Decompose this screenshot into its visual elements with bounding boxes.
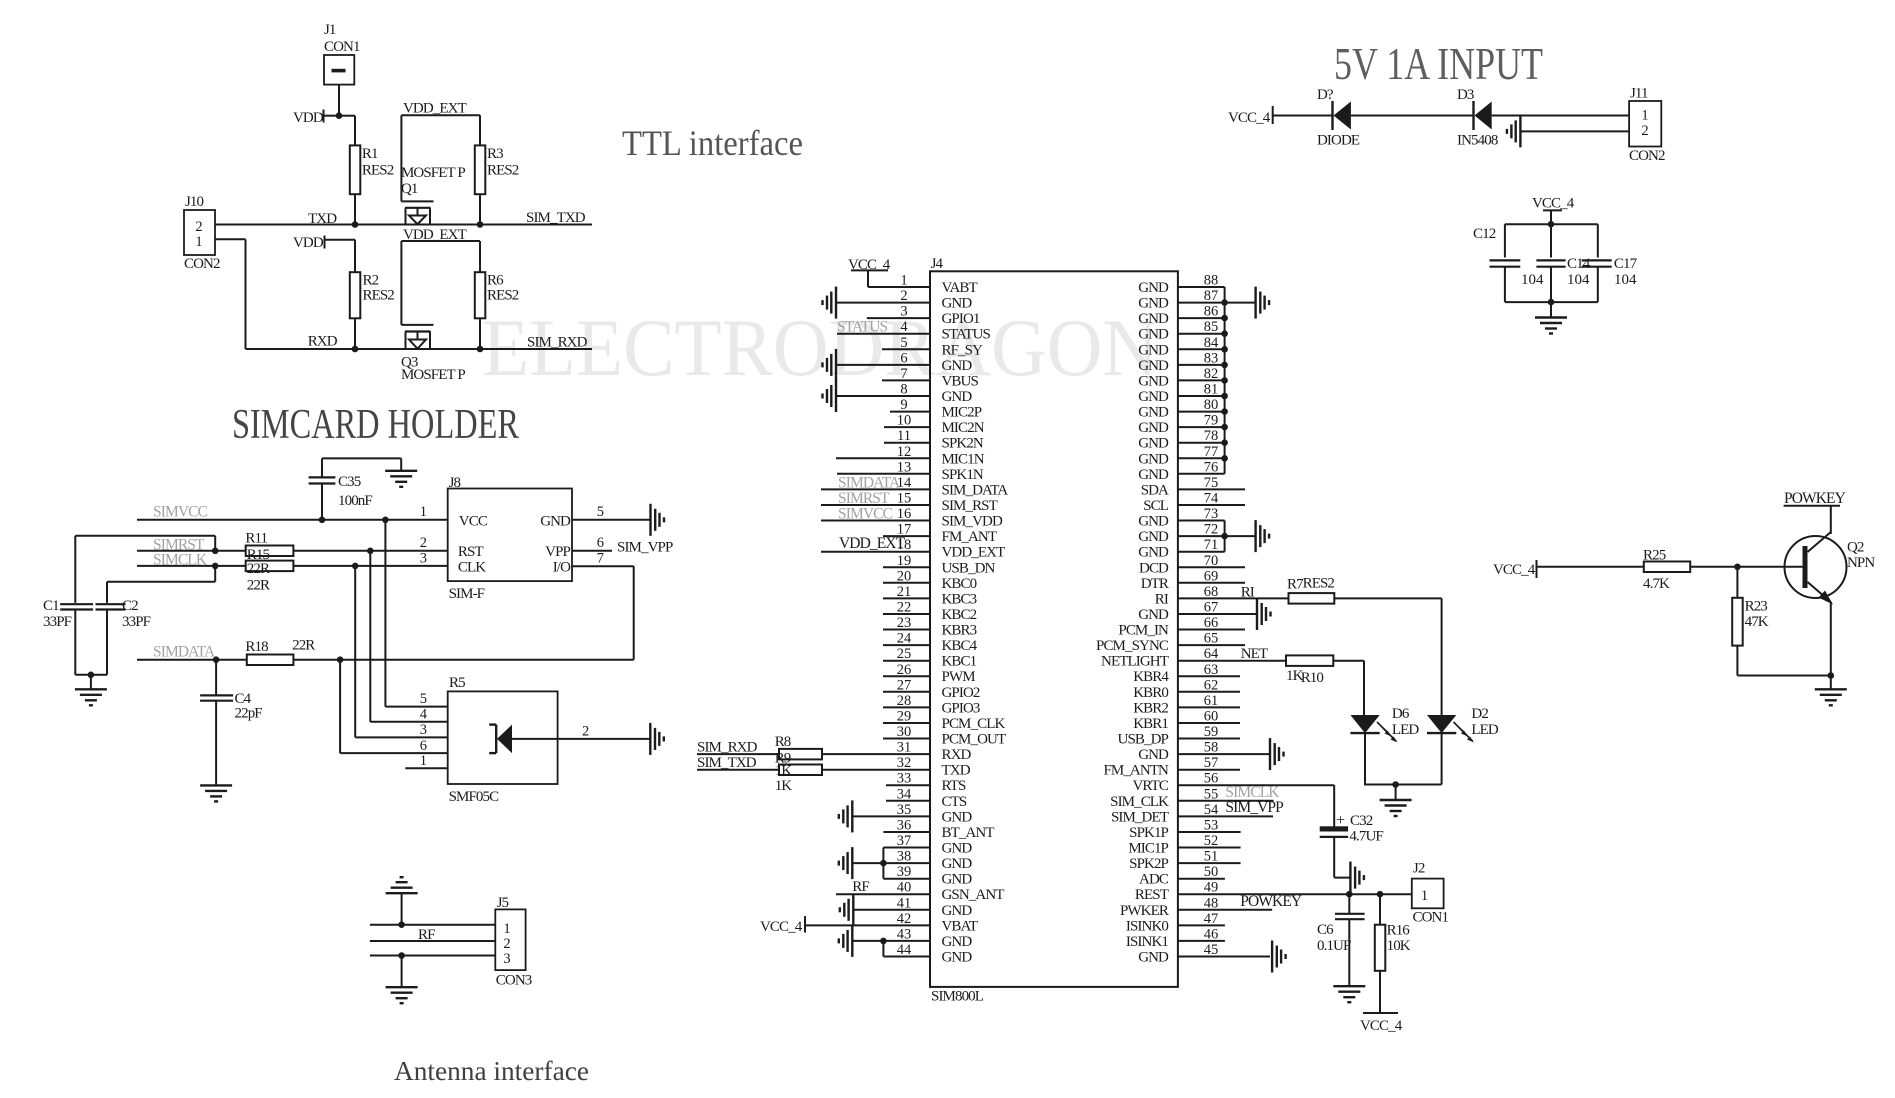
svg-text:GND: GND — [1138, 529, 1169, 545]
wire R25 to base — [1690, 566, 1803, 568]
svg-text:GND: GND — [540, 514, 571, 530]
ground (pins 37-39) — [839, 847, 853, 879]
wire pin 62 stub — [1178, 691, 1240, 693]
wire R6 to RXD line — [479, 318, 481, 349]
capacitor C32 4.7UF polarized — [1320, 812, 1384, 878]
pin 52 MIC1P — [1128, 833, 1218, 857]
wire C32 to ground — [1334, 877, 1350, 879]
wire pin 64 stub — [1178, 660, 1286, 662]
pin 19 USB_DN — [883, 553, 996, 577]
node TXD-R1 junction — [352, 221, 359, 228]
wire J8 pin5 GND — [572, 519, 651, 521]
svg-text:6: 6 — [597, 535, 604, 551]
wire pin 79 stub — [1178, 426, 1225, 428]
power VCC_4 (input) — [1228, 106, 1273, 126]
svg-text:R1: R1 — [362, 146, 378, 162]
wire R3 to TXD line — [479, 194, 481, 224]
svg-text:37: 37 — [897, 833, 912, 849]
svg-text:1: 1 — [1641, 108, 1648, 124]
wire pin 47 stub — [1178, 924, 1225, 926]
svg-text:C6: C6 — [1317, 922, 1334, 938]
wire pin 85 stub — [1178, 333, 1225, 335]
svg-text:CON2: CON2 — [184, 256, 220, 272]
svg-text:10: 10 — [897, 413, 912, 429]
svg-text:D3: D3 — [1457, 87, 1474, 103]
node pin 77 bus junction — [1221, 455, 1228, 462]
ground (J8 pin5) — [651, 504, 665, 536]
svg-text:GND: GND — [1138, 467, 1169, 483]
svg-text:23: 23 — [897, 615, 912, 631]
pin 75 SDA — [1141, 475, 1219, 499]
svg-text:R5: R5 — [449, 675, 465, 691]
svg-text:C12: C12 — [1473, 226, 1496, 242]
wire R18 to I/O loop — [293, 659, 633, 661]
pin 71 GND — [1138, 537, 1218, 561]
resistor R2 RES2 — [350, 272, 395, 318]
svg-text:DCD: DCD — [1139, 560, 1169, 576]
svg-text:STATUS: STATUS — [942, 327, 991, 343]
svg-text:R10: R10 — [1301, 670, 1324, 686]
wire R5 pin4 riser — [370, 551, 447, 722]
pin 58 GND — [1138, 740, 1218, 764]
svg-text:SIM-F: SIM-F — [449, 586, 485, 602]
pin 44 GND — [883, 942, 972, 966]
node SIMRST-R5 branch — [367, 548, 374, 555]
pin 42 VBAT — [805, 911, 978, 935]
resistor R25 4.7K — [1643, 548, 1690, 593]
svg-text:I/O: I/O — [553, 560, 571, 576]
capacitor C12 104 — [1473, 226, 1544, 288]
ground (Q2) — [1815, 689, 1847, 705]
capacitor C1 33PF — [43, 598, 93, 675]
pin 12 MIC1N — [836, 444, 985, 468]
svg-text:19: 19 — [897, 553, 912, 569]
node LED ground junction — [1392, 781, 1399, 788]
wire R5 pin1 stub — [405, 767, 447, 769]
wire C2 bracket to SIMCLK — [107, 566, 215, 603]
wire pin 66 stub — [1178, 629, 1245, 631]
ground (pin58) — [1270, 738, 1284, 770]
capacitor C35 100nF — [309, 458, 373, 519]
node pin 86 bus junction — [1221, 315, 1228, 322]
svg-text:CLK: CLK — [458, 560, 486, 576]
svg-text:22R: 22R — [247, 561, 270, 577]
resistor R23 47K — [1732, 567, 1769, 646]
pin 22 KBC2 — [883, 600, 977, 624]
wire VCC_4 to R25 — [1537, 566, 1644, 568]
node pin38 junction — [880, 860, 887, 867]
svg-text:SIM_VPP: SIM_VPP — [1225, 799, 1283, 816]
resistor R6 RES2 — [475, 272, 519, 318]
wire J1 to VDD node — [338, 85, 340, 116]
svg-text:MIC2N: MIC2N — [942, 420, 985, 436]
svg-text:2: 2 — [420, 535, 427, 551]
svg-text:5V 1A INPUT: 5V 1A INPUT — [1334, 38, 1543, 89]
wire R5 pin6 riser — [340, 660, 448, 753]
svg-text:1K: 1K — [775, 763, 793, 779]
wire C1/C2 to ground — [75, 674, 107, 676]
svg-text:40: 40 — [897, 880, 912, 896]
svg-text:SIM_DET: SIM_DET — [1111, 809, 1169, 825]
svg-text:7: 7 — [597, 551, 604, 567]
node pin72 bus junction — [1221, 533, 1228, 540]
transistor Q2 NPN — [1785, 506, 1876, 676]
capacitor C14 104 — [1536, 256, 1590, 288]
svg-text:10K: 10K — [1387, 938, 1411, 954]
ground (pin8) — [823, 380, 837, 412]
svg-text:VDD_EXT: VDD_EXT — [403, 101, 467, 117]
svg-text:FM_ANT: FM_ANT — [942, 529, 997, 545]
pin 51 SPK2P — [1129, 849, 1218, 873]
svg-text:SIM_DATA: SIM_DATA — [942, 482, 1009, 498]
wire cap bank frame — [1505, 224, 1598, 302]
wire R5 pin2 to ground — [558, 738, 651, 740]
svg-text:SDA: SDA — [1141, 482, 1169, 498]
wire SIM_RXD — [697, 753, 779, 755]
svg-text:CON1: CON1 — [324, 39, 360, 55]
svg-text:VDD: VDD — [293, 110, 324, 126]
svg-text:VCC_4: VCC_4 — [1532, 196, 1575, 212]
pin 3 GPIO1 — [867, 304, 980, 328]
wire VDD to R1 — [339, 116, 355, 146]
svg-text:PWKER: PWKER — [1120, 903, 1169, 919]
svg-text:GPIO1: GPIO1 — [942, 311, 980, 327]
svg-text:9: 9 — [900, 397, 907, 413]
svg-text:RES2: RES2 — [363, 288, 395, 304]
svg-text:33PF: 33PF — [122, 614, 151, 630]
node SIMDATA-C4 — [213, 656, 220, 663]
wire J5 pin3 — [370, 955, 495, 957]
svg-text:VPP: VPP — [545, 544, 570, 560]
svg-text:29: 29 — [897, 709, 912, 725]
transistor Q3 MOSFET P — [401, 241, 465, 383]
svg-text:4: 4 — [420, 707, 428, 723]
node TXD-R3 junction — [477, 221, 484, 228]
IC J4 SIM800L body — [930, 256, 1178, 1005]
svg-text:KBR1: KBR1 — [1133, 716, 1168, 732]
svg-text:24: 24 — [897, 631, 912, 647]
resistor R7 RES2 — [1287, 576, 1334, 604]
node pin 78 bus junction — [1221, 439, 1228, 446]
svg-text:12: 12 — [897, 444, 912, 460]
pin 16 SIM_VDD — [821, 506, 1003, 530]
svg-text:SIM_TXD: SIM_TXD — [526, 210, 586, 226]
svg-text:MIC1N: MIC1N — [942, 451, 985, 467]
svg-text:GND: GND — [1138, 327, 1169, 343]
svg-text:41: 41 — [897, 895, 912, 911]
ground (R5 pin2) — [650, 723, 664, 755]
node pin 82 bus junction — [1221, 377, 1228, 384]
pin 8 GND — [836, 382, 972, 406]
svg-text:+: + — [1336, 812, 1345, 829]
wire SIM_TXD — [697, 769, 779, 771]
pin 67 GND — [1138, 600, 1218, 624]
node pin 83 bus junction — [1221, 362, 1228, 369]
pin 79 GND — [1138, 413, 1218, 437]
wire pin 57 stub — [1178, 769, 1240, 771]
wire SIMCLK line — [137, 565, 246, 567]
svg-text:43: 43 — [897, 926, 912, 942]
resistor R18 22R — [245, 638, 315, 665]
pin 31 RXD — [822, 740, 972, 764]
node cap bank bottom — [1548, 299, 1555, 306]
resistor R3 RES2 — [475, 145, 519, 194]
svg-text:22R: 22R — [292, 638, 315, 654]
wire J5 pin1 RF — [370, 924, 495, 926]
pin 21 KBC3 — [883, 584, 977, 608]
wire pin 53 stub — [1178, 831, 1241, 833]
svg-text:ISINK0: ISINK0 — [1126, 918, 1168, 934]
svg-text:KBR4: KBR4 — [1133, 669, 1169, 685]
svg-text:PCM_SYNC: PCM_SYNC — [1096, 638, 1169, 654]
pin 63 KBR4 — [1133, 662, 1218, 685]
pin 7 VBUS — [882, 366, 978, 390]
ground (C1 C2) — [75, 689, 107, 705]
svg-text:NPN: NPN — [1847, 555, 1875, 571]
svg-text:22pF: 22pF — [235, 705, 263, 721]
wire pin 88 stub — [1178, 286, 1225, 288]
pin 66 PCM_IN — [1118, 615, 1218, 639]
svg-text:KBR2: KBR2 — [1133, 700, 1168, 716]
svg-text:J1: J1 — [324, 22, 336, 38]
svg-text:R11: R11 — [245, 531, 267, 547]
node pin 84 bus junction — [1221, 346, 1228, 353]
wire pin 70 stub — [1178, 566, 1245, 568]
wire cap bank to ground — [1550, 302, 1552, 317]
svg-text:35: 35 — [897, 802, 912, 818]
svg-text:1: 1 — [503, 921, 510, 937]
node cap bank top — [1548, 221, 1555, 228]
svg-text:1: 1 — [1421, 888, 1428, 904]
svg-text:KBR3: KBR3 — [942, 623, 977, 639]
svg-text:PWM: PWM — [942, 669, 976, 685]
pin 43 GND — [883, 926, 972, 950]
svg-text:42: 42 — [897, 911, 912, 927]
svg-text:VBAT: VBAT — [942, 918, 978, 934]
ground (J11 pin2) — [1507, 115, 1521, 147]
pin 27 GPIO2 — [883, 677, 980, 701]
svg-text:MIC2P: MIC2P — [942, 405, 982, 421]
svg-text:SCL: SCL — [1143, 498, 1169, 514]
svg-text:GND: GND — [1138, 358, 1169, 374]
pin 65 PCM_SYNC — [1096, 631, 1218, 655]
node pin 79 bus junction — [1221, 424, 1228, 431]
wire R7 to D2 — [1334, 598, 1441, 715]
ground (antenna top) — [386, 877, 418, 893]
svg-text:R2: R2 — [363, 272, 379, 288]
svg-text:RES2: RES2 — [487, 163, 519, 179]
svg-text:GND: GND — [942, 841, 973, 857]
wire pin 59 stub — [1178, 738, 1240, 740]
svg-text:4.7K: 4.7K — [1643, 576, 1670, 592]
pin 61 KBR2 — [1133, 693, 1218, 717]
wire SIMDATA line — [137, 659, 247, 661]
svg-text:D6: D6 — [1392, 706, 1410, 722]
wire pin 61 stub — [1178, 706, 1240, 708]
svg-text:GND: GND — [942, 903, 973, 919]
resistor R22 22R (SIMCLK) — [246, 561, 294, 594]
wire pin 63 stub — [1178, 675, 1240, 677]
pin 34 CTS — [886, 786, 967, 810]
svg-text:STATUS: STATUS — [837, 319, 887, 336]
svg-text:RI: RI — [1155, 591, 1169, 607]
wire pin 84 stub — [1178, 348, 1225, 350]
pin 53 SPK1P — [1129, 818, 1218, 842]
resistor R1 RES2 — [350, 145, 394, 194]
pin 64 NETLIGHT — [1101, 646, 1219, 670]
wire SIMVCC line — [137, 519, 448, 521]
pin 54 SIM_DET — [1111, 802, 1219, 826]
svg-text:KBR0: KBR0 — [1133, 685, 1168, 701]
wire C1 bracket to SIMRST — [75, 536, 215, 603]
svg-text:SPK2P: SPK2P — [1129, 856, 1168, 872]
wire pin 78 stub — [1178, 442, 1225, 444]
pin 70 DCD — [1139, 553, 1218, 577]
capacitor C6 0.1UF — [1317, 894, 1365, 986]
svg-text:22: 22 — [897, 600, 912, 616]
pin 29 PCM_CLK — [883, 709, 1005, 733]
pin 76 GND — [1138, 459, 1218, 483]
wire pins 43-44 gnd bracket — [853, 941, 883, 957]
svg-text:20: 20 — [897, 568, 912, 584]
pin 23 KBR3 — [883, 615, 977, 639]
svg-text:VRTC: VRTC — [1132, 778, 1168, 794]
node pin 80 bus junction — [1221, 408, 1228, 415]
svg-text:2: 2 — [582, 724, 589, 740]
pin 72 GND — [1138, 522, 1218, 546]
svg-text:36: 36 — [897, 818, 912, 834]
svg-text:22R: 22R — [247, 578, 270, 594]
ground (pins 43-44) — [839, 925, 853, 957]
wire pin 60 stub — [1178, 722, 1240, 724]
pin 6 GND — [836, 350, 972, 374]
pin 49 REST — [1135, 880, 1218, 904]
svg-text:5: 5 — [420, 691, 427, 707]
node pin 81 bus junction — [1221, 393, 1228, 400]
ground (pin41) — [840, 894, 854, 926]
pin 26 PWM — [883, 662, 975, 685]
wire I/O riser — [572, 566, 634, 659]
svg-text:GSN_ANT: GSN_ANT — [942, 887, 1005, 903]
wire pin 74 stub — [1178, 504, 1245, 506]
wire pin 69 stub — [1178, 582, 1245, 584]
svg-text:PCM_IN: PCM_IN — [1118, 623, 1169, 639]
pin 55 SIM_CLK — [1110, 786, 1218, 810]
connector J1 CON1 — [324, 22, 360, 85]
svg-text:C32: C32 — [1350, 813, 1373, 829]
svg-text:C14: C14 — [1567, 256, 1591, 272]
pin 13 SPK1N — [837, 459, 984, 483]
pin 30 PCM_OUT — [883, 724, 1006, 748]
diode D? DIODE — [1317, 87, 1360, 148]
svg-text:J11: J11 — [1630, 86, 1648, 102]
svg-text:KBC1: KBC1 — [942, 654, 977, 670]
wire pin56 VRTC to C32 — [1333, 785, 1335, 826]
wire pin87 to ground — [1225, 302, 1256, 304]
svg-text:VCC_4: VCC_4 — [1360, 1018, 1403, 1034]
svg-text:D2: D2 — [1471, 706, 1488, 722]
wire pins 37-39 gnd bracket — [853, 848, 883, 879]
svg-text:PCM_CLK: PCM_CLK — [942, 716, 1006, 732]
wire LED bottom rail — [1364, 784, 1442, 786]
pin 14 SIM_DATA — [821, 475, 1008, 499]
svg-text:VCC_4: VCC_4 — [1228, 110, 1271, 126]
wire RXD line — [246, 348, 593, 350]
pin 45 GND — [1138, 942, 1218, 966]
svg-text:RES2: RES2 — [1303, 576, 1335, 592]
svg-text:USB_DN: USB_DN — [942, 560, 996, 576]
svg-text:GND: GND — [1138, 296, 1169, 312]
svg-text:POWKEY: POWKEY — [1784, 490, 1846, 507]
power VCC_4 (cap bank) — [1532, 196, 1575, 225]
pin 74 SCL — [1143, 491, 1219, 515]
wire ground stub — [90, 675, 92, 690]
svg-text:Q2: Q2 — [1847, 540, 1864, 556]
ground (pin6) — [823, 349, 837, 381]
pin 81 GND — [1138, 382, 1218, 406]
svg-text:KBC0: KBC0 — [942, 576, 977, 592]
svg-text:5: 5 — [900, 335, 907, 351]
svg-text:SPK2N: SPK2N — [942, 436, 984, 452]
wire pin3 to ground — [401, 956, 403, 988]
svg-text:D?: D? — [1317, 87, 1334, 103]
pin 25 KBC1 — [883, 646, 977, 670]
svg-text:R3: R3 — [487, 146, 503, 162]
svg-text:CON3: CON3 — [496, 973, 532, 989]
node SIMRST-C1 — [212, 548, 219, 555]
wire 22R to J8 pin3 — [293, 565, 447, 567]
svg-text:GND: GND — [1138, 436, 1169, 452]
resistor R8 1K — [775, 734, 822, 759]
svg-text:VDD_EXT: VDD_EXT — [942, 545, 1006, 561]
svg-text:BT_ANT: BT_ANT — [942, 825, 995, 841]
svg-text:SIMCARD HOLDER: SIMCARD HOLDER — [232, 402, 519, 448]
pin 84 GND — [1138, 335, 1219, 359]
svg-text:1K: 1K — [775, 778, 793, 794]
resistor R15 22R (SIMRST) — [245, 531, 293, 564]
svg-text:28: 28 — [897, 693, 912, 709]
svg-text:0.1UF: 0.1UF — [1317, 938, 1351, 954]
wire R2 to RXD line — [354, 318, 356, 349]
pin 36 BT_ANT — [883, 818, 994, 842]
svg-text:11: 11 — [897, 428, 911, 444]
svg-text:104: 104 — [1567, 272, 1590, 288]
wire R10 to D6 — [1333, 661, 1364, 715]
wire LED rail to ground — [1395, 785, 1397, 801]
node C1-C2 ground — [88, 672, 95, 679]
svg-text:TXD: TXD — [942, 763, 971, 779]
LED D2 — [1427, 706, 1499, 785]
svg-text:KBC4: KBC4 — [942, 638, 978, 654]
svg-text:GND: GND — [1138, 514, 1169, 530]
svg-text:MIC1P: MIC1P — [1128, 841, 1168, 857]
pin 88 GND — [1138, 273, 1218, 297]
wire pin 52 stub — [1178, 847, 1241, 849]
pin 37 GND — [883, 833, 972, 857]
svg-text:SIM_RXD: SIM_RXD — [527, 335, 588, 351]
svg-text:IN5408: IN5408 — [1457, 132, 1498, 148]
svg-text:SIMDATA: SIMDATA — [838, 475, 901, 492]
power VDD (lower) — [293, 235, 355, 251]
resistor R10 1K — [1286, 655, 1333, 686]
svg-text:Antenna interface: Antenna interface — [394, 1056, 589, 1086]
LED D6 — [1350, 706, 1419, 785]
pin 83 GND — [1138, 350, 1218, 374]
svg-text:104: 104 — [1521, 272, 1544, 288]
svg-text:SIMRST: SIMRST — [838, 490, 890, 507]
connector J2 CON1 — [1412, 861, 1449, 926]
wire VDD to R2 — [354, 240, 356, 273]
